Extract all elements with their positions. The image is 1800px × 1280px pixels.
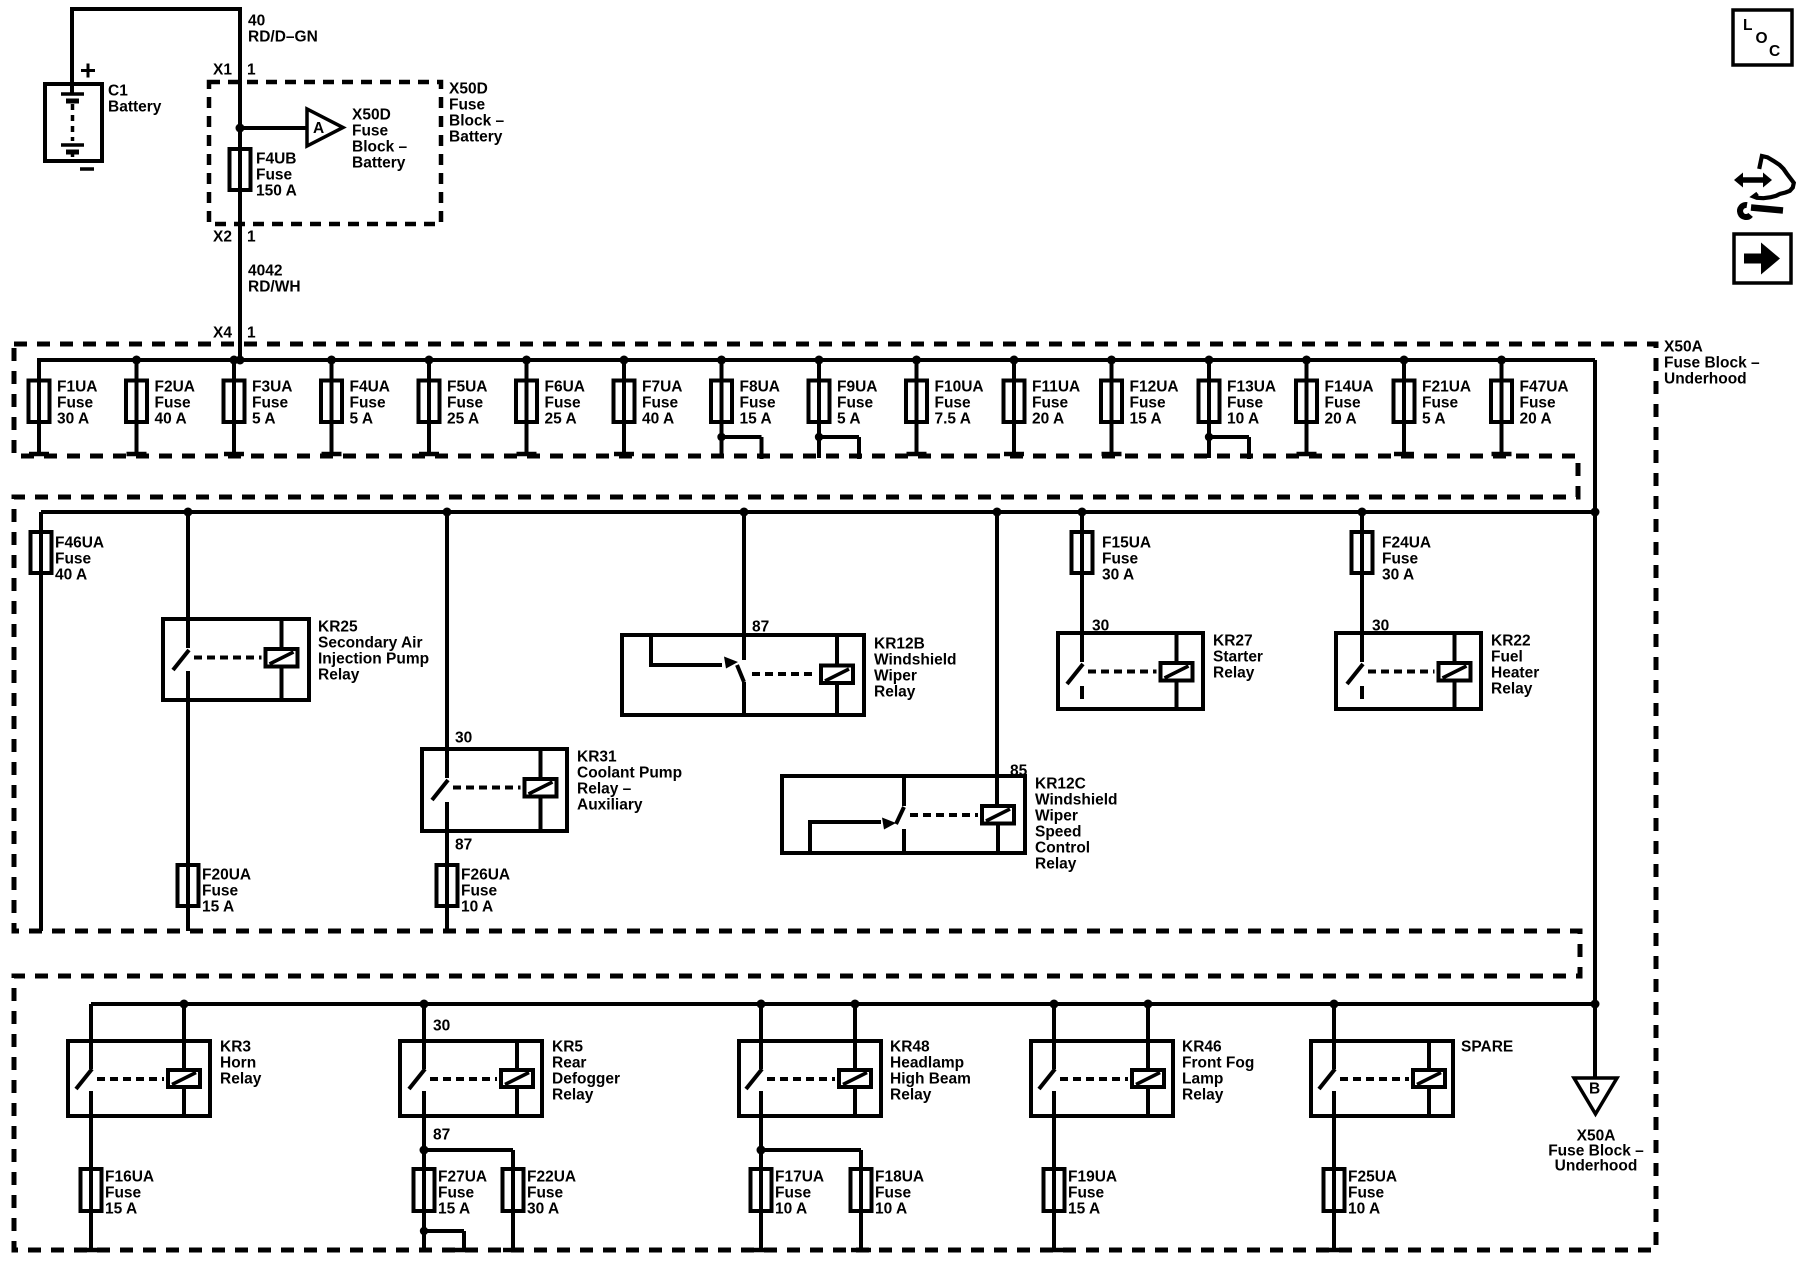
svg-text:Fuse: Fuse xyxy=(1520,395,1557,412)
svg-text:Relay: Relay xyxy=(220,1071,262,1088)
fuse F22UA 30 A xyxy=(503,1169,577,1218)
svg-text:KR5: KR5 xyxy=(552,1039,583,1056)
svg-text:F7UA: F7UA xyxy=(642,379,682,396)
svg-text:Fuse: Fuse xyxy=(447,395,484,412)
svg-text:F8UA: F8UA xyxy=(740,379,780,396)
svg-text:KR31: KR31 xyxy=(577,749,617,766)
svg-text:C1: C1 xyxy=(108,83,128,100)
svg-text:KR22: KR22 xyxy=(1491,633,1531,650)
relay KR46 Front Fog Lamp Relay xyxy=(1031,1000,1254,1117)
svg-text:KR46: KR46 xyxy=(1182,1039,1222,1056)
svg-text:Control: Control xyxy=(1035,840,1090,857)
fuse F7UA 40 A xyxy=(614,356,683,457)
svg-text:Wiper: Wiper xyxy=(1035,808,1078,825)
svg-text:10 A: 10 A xyxy=(1227,411,1259,428)
fuse F5UA 25 A xyxy=(419,356,488,457)
svg-text:Coolant Pump: Coolant Pump xyxy=(577,765,682,782)
svg-text:KR12B: KR12B xyxy=(874,636,925,653)
fuse F6UA 25 A xyxy=(516,356,585,457)
svg-text:Underhood: Underhood xyxy=(1555,1158,1638,1175)
svg-text:15 A: 15 A xyxy=(1068,1201,1100,1218)
svg-text:Fuse: Fuse xyxy=(202,883,239,900)
relay KR31 Coolant Pump Relay - Auxiliary xyxy=(422,508,682,832)
wire KR3 output to F16UA xyxy=(81,1091,101,1250)
wire label 4042 RD/WH xyxy=(248,263,301,296)
label X50D Fuse Block - Battery (box) xyxy=(449,81,505,146)
svg-text:Secondary Air: Secondary Air xyxy=(318,635,423,652)
svg-text:Fuse: Fuse xyxy=(155,395,192,412)
svg-text:Fuse: Fuse xyxy=(935,395,972,412)
fuse F16UA 15 A xyxy=(81,1169,155,1218)
svg-text:Lamp: Lamp xyxy=(1182,1071,1223,1088)
svg-text:40: 40 xyxy=(248,13,265,30)
wire label 40 RD/D-GN xyxy=(248,13,318,46)
fuse F19UA 15 A xyxy=(1044,1169,1118,1218)
svg-text:F21UA: F21UA xyxy=(1422,379,1471,396)
svg-text:Fuse: Fuse xyxy=(1032,395,1069,412)
svg-text:F13UA: F13UA xyxy=(1227,379,1276,396)
svg-text:15 A: 15 A xyxy=(438,1201,470,1218)
svg-text:Fuse: Fuse xyxy=(350,395,387,412)
fuse F9UA 5 A xyxy=(809,356,878,460)
wire battery positive to X1 node xyxy=(72,9,240,360)
svg-text:Fuse: Fuse xyxy=(352,123,389,140)
svg-text:Fuse: Fuse xyxy=(1382,551,1419,568)
svg-text:Relay: Relay xyxy=(1182,1087,1224,1104)
svg-text:15 A: 15 A xyxy=(740,411,772,428)
svg-text:KR25: KR25 xyxy=(318,619,358,636)
svg-text:X4: X4 xyxy=(213,325,232,342)
connector label X1 pin 1 xyxy=(213,62,256,79)
svg-text:15 A: 15 A xyxy=(202,899,234,916)
svg-text:Relay: Relay xyxy=(552,1087,594,1104)
svg-text:5 A: 5 A xyxy=(1422,411,1446,428)
fuse block X50A dashed outline xyxy=(14,344,1656,1250)
svg-text:87: 87 xyxy=(752,619,769,636)
connector label X4 pin 1 xyxy=(213,325,256,342)
svg-text:10 A: 10 A xyxy=(461,899,493,916)
fuse F13UA 10 A xyxy=(1199,356,1277,460)
svg-text:KR48: KR48 xyxy=(890,1039,930,1056)
relay KR27 Starter Relay xyxy=(1058,618,1263,710)
svg-text:F25UA: F25UA xyxy=(1348,1169,1397,1186)
svg-text:X50A: X50A xyxy=(1664,339,1703,356)
svg-text:Fuse: Fuse xyxy=(1068,1185,1105,1202)
svg-text:Relay: Relay xyxy=(890,1087,932,1104)
svg-text:Block –: Block – xyxy=(352,139,408,156)
svg-text:Wiper: Wiper xyxy=(874,668,917,685)
svg-text:40 A: 40 A xyxy=(642,411,674,428)
svg-text:10 A: 10 A xyxy=(1348,1201,1380,1218)
svg-text:30: 30 xyxy=(455,730,472,747)
svg-text:F17UA: F17UA xyxy=(775,1169,824,1186)
svg-text:KR3: KR3 xyxy=(220,1039,251,1056)
svg-text:10 A: 10 A xyxy=(775,1201,807,1218)
svg-text:Battery: Battery xyxy=(449,129,503,146)
fuse F4UA 5 A xyxy=(321,356,390,457)
svg-text:Fuse: Fuse xyxy=(1422,395,1459,412)
svg-text:Relay: Relay xyxy=(874,684,916,701)
svg-text:Fuse: Fuse xyxy=(1348,1185,1385,1202)
fuse F2UA 40 A xyxy=(126,356,195,457)
relay KR25 Secondary Air Injection Pump Relay xyxy=(163,508,429,701)
svg-text:Headlamp: Headlamp xyxy=(890,1055,964,1072)
svg-text:F5UA: F5UA xyxy=(447,379,487,396)
svg-text:30 A: 30 A xyxy=(1382,567,1414,584)
fuse F1UA 30 A xyxy=(29,360,98,456)
wire bus row 1 xyxy=(39,360,1595,456)
svg-text:Fuse: Fuse xyxy=(775,1185,812,1202)
svg-text:High Beam: High Beam xyxy=(890,1071,971,1088)
svg-text:X50D: X50D xyxy=(352,107,391,124)
svg-text:Fuse: Fuse xyxy=(1102,551,1139,568)
svg-text:F22UA: F22UA xyxy=(527,1169,576,1186)
svg-text:Fuse: Fuse xyxy=(1227,395,1264,412)
fuse F14UA 20 A xyxy=(1296,356,1374,457)
svg-text:Battery: Battery xyxy=(352,155,406,172)
fuse F46UA 40 A xyxy=(31,512,105,931)
svg-text:40 A: 40 A xyxy=(155,411,187,428)
connector label X2 pin 1 xyxy=(213,229,256,246)
fuse F25UA 10 A xyxy=(1324,1169,1398,1218)
svg-text:Underhood: Underhood xyxy=(1664,371,1747,388)
fuse F21UA 5 A xyxy=(1394,356,1472,457)
relay KR5 Rear Defogger Relay xyxy=(400,1000,620,1117)
svg-text:Front Fog: Front Fog xyxy=(1182,1055,1254,1072)
svg-text:30 A: 30 A xyxy=(527,1201,559,1218)
svg-text:Battery: Battery xyxy=(108,99,162,116)
svg-text:F18UA: F18UA xyxy=(875,1169,924,1186)
svg-text:7.5 A: 7.5 A xyxy=(935,411,971,428)
svg-text:Fuse: Fuse xyxy=(545,395,582,412)
relay KR22 Fuel Heater Relay xyxy=(1336,618,1539,710)
svg-text:F20UA: F20UA xyxy=(202,867,251,884)
svg-text:1: 1 xyxy=(247,62,256,79)
wire SPARE output to F25UA xyxy=(1324,1091,1344,1250)
svg-text:87: 87 xyxy=(433,1127,450,1144)
svg-text:Fuse: Fuse xyxy=(740,395,777,412)
svg-text:F1UA: F1UA xyxy=(57,379,97,396)
label X50A Fuse Block - Underhood (top right) xyxy=(1664,339,1760,388)
node A tap junction xyxy=(236,124,308,133)
svg-text:A: A xyxy=(313,120,324,137)
svg-text:B: B xyxy=(1589,1081,1600,1098)
svg-text:X50D: X50D xyxy=(449,81,488,98)
svg-text:Auxiliary: Auxiliary xyxy=(577,797,643,814)
icon adjust hand with wrench xyxy=(1734,156,1794,217)
label X50D Fuse Block - Battery (triangle A) xyxy=(352,107,408,172)
relay KR48 Headlamp High Beam Relay xyxy=(739,1000,971,1117)
svg-text:Fuse: Fuse xyxy=(55,551,92,568)
svg-text:F16UA: F16UA xyxy=(105,1169,154,1186)
wire bus row 2 xyxy=(41,508,1600,517)
relay KR12B Windshield Wiper Relay xyxy=(622,508,957,716)
svg-text:20 A: 20 A xyxy=(1325,411,1357,428)
svg-text:Fuse: Fuse xyxy=(461,883,498,900)
svg-text:F9UA: F9UA xyxy=(837,379,877,396)
fuse block X50D dashed box xyxy=(209,82,441,224)
svg-text:Fuse: Fuse xyxy=(105,1185,142,1202)
svg-text:Relay –: Relay – xyxy=(577,781,632,798)
relay KR12C Windshield Wiper Speed Control Relay xyxy=(782,508,1118,873)
svg-text:30 A: 30 A xyxy=(1102,567,1134,584)
fuse F27UA 15 A xyxy=(414,1169,488,1253)
wire KR5 pin 87 split to F27UA and F22UA xyxy=(420,1091,524,1250)
svg-text:5 A: 5 A xyxy=(350,411,374,428)
relay SPARE xyxy=(1311,1000,1513,1117)
fuse F24UA 30 A xyxy=(1352,508,1432,663)
svg-text:Fuse: Fuse xyxy=(1130,395,1167,412)
svg-text:F47UA: F47UA xyxy=(1520,379,1569,396)
connector triangle B X50A Fuse Block - Underhood xyxy=(1548,1078,1644,1175)
svg-text:F11UA: F11UA xyxy=(1032,379,1080,396)
svg-text:Fuse Block –: Fuse Block – xyxy=(1664,355,1760,372)
svg-text:5 A: 5 A xyxy=(837,411,861,428)
svg-text:Fuse: Fuse xyxy=(449,97,486,114)
wire KR48 output split to F17UA and F18UA xyxy=(751,1091,871,1250)
fuse F10UA 7.5 A xyxy=(906,356,984,457)
svg-text:F19UA: F19UA xyxy=(1068,1169,1117,1186)
svg-text:F27UA: F27UA xyxy=(438,1169,487,1186)
svg-text:F46UA: F46UA xyxy=(55,535,104,552)
wire KR46 output to F19UA xyxy=(1044,1091,1064,1250)
svg-text:20 A: 20 A xyxy=(1032,411,1064,428)
svg-text:Fuse: Fuse xyxy=(527,1185,564,1202)
fuse F4UB 150 A xyxy=(230,149,297,200)
svg-text:SPARE: SPARE xyxy=(1461,1039,1513,1056)
svg-text:4042: 4042 xyxy=(248,263,282,280)
fuse F12UA 15 A xyxy=(1101,356,1179,457)
svg-text:Relay: Relay xyxy=(1491,681,1533,698)
svg-text:O: O xyxy=(1756,30,1768,47)
svg-text:F6UA: F6UA xyxy=(545,379,585,396)
svg-text:KR12C: KR12C xyxy=(1035,776,1086,793)
svg-text:Fuse: Fuse xyxy=(1325,395,1362,412)
svg-text:Heater: Heater xyxy=(1491,665,1539,682)
svg-text:1: 1 xyxy=(247,325,256,342)
svg-text:Relay: Relay xyxy=(1213,665,1255,682)
svg-text:87: 87 xyxy=(455,837,472,854)
svg-text:Fuse: Fuse xyxy=(875,1185,912,1202)
fuse F17UA 10 A xyxy=(751,1169,825,1218)
fuse F47UA 20 A xyxy=(1491,356,1569,457)
svg-text:Fuse: Fuse xyxy=(837,395,874,412)
svg-text:15 A: 15 A xyxy=(1130,411,1162,428)
fuse F18UA 10 A xyxy=(851,1169,925,1218)
fuse F11UA 20 A xyxy=(1004,356,1081,457)
svg-text:RD/D–GN: RD/D–GN xyxy=(248,29,318,46)
svg-text:1: 1 xyxy=(247,229,256,246)
svg-text:F24UA: F24UA xyxy=(1382,535,1431,552)
wire KR25 output to F20UA xyxy=(186,671,190,931)
svg-text:Starter: Starter xyxy=(1213,649,1263,666)
svg-text:RD/WH: RD/WH xyxy=(248,279,301,296)
svg-text:F3UA: F3UA xyxy=(252,379,292,396)
svg-text:Relay: Relay xyxy=(318,667,360,684)
svg-text:Fuse: Fuse xyxy=(642,395,679,412)
svg-text:C: C xyxy=(1769,43,1780,60)
svg-text:F12UA: F12UA xyxy=(1130,379,1179,396)
fuse F3UA 5 A xyxy=(224,356,293,457)
svg-text:F15UA: F15UA xyxy=(1102,535,1151,552)
svg-text:10 A: 10 A xyxy=(875,1201,907,1218)
svg-text:F2UA: F2UA xyxy=(155,379,195,396)
svg-text:Fuse: Fuse xyxy=(256,167,293,184)
svg-text:Relay: Relay xyxy=(1035,856,1077,873)
svg-text:25 A: 25 A xyxy=(447,411,479,428)
svg-text:30 A: 30 A xyxy=(57,411,89,428)
svg-text:KR27: KR27 xyxy=(1213,633,1253,650)
svg-text:25 A: 25 A xyxy=(545,411,577,428)
fuse F8UA 15 A xyxy=(711,356,780,460)
fuse F15UA 30 A xyxy=(1072,508,1152,663)
svg-text:F26UA: F26UA xyxy=(461,867,510,884)
svg-text:5 A: 5 A xyxy=(252,411,276,428)
svg-text:Fuse: Fuse xyxy=(438,1185,475,1202)
svg-text:Defogger: Defogger xyxy=(552,1071,620,1088)
svg-text:Horn: Horn xyxy=(220,1055,256,1072)
svg-text:30: 30 xyxy=(433,1018,450,1035)
svg-text:Speed: Speed xyxy=(1035,824,1082,841)
svg-text:Fuse: Fuse xyxy=(252,395,289,412)
svg-text:F4UA: F4UA xyxy=(350,379,390,396)
battery C1 xyxy=(45,64,162,170)
relay KR3 Horn Relay xyxy=(68,1000,262,1117)
svg-text:Injection Pump: Injection Pump xyxy=(318,651,429,668)
icon LOC box xyxy=(1733,10,1792,65)
wire KR31 pin 87 output to F26UA xyxy=(447,802,472,931)
svg-text:F10UA: F10UA xyxy=(935,379,984,396)
svg-text:40 A: 40 A xyxy=(55,567,87,584)
svg-text:15 A: 15 A xyxy=(105,1201,137,1218)
svg-text:Block –: Block – xyxy=(449,113,505,130)
connector triangle A xyxy=(307,109,343,146)
svg-text:Windshield: Windshield xyxy=(1035,792,1118,809)
svg-text:X2: X2 xyxy=(213,229,232,246)
fuse F26UA 10 A xyxy=(437,865,511,916)
fuse F20UA 15 A xyxy=(178,865,252,916)
svg-text:Fuse: Fuse xyxy=(57,395,94,412)
svg-text:20 A: 20 A xyxy=(1520,411,1552,428)
icon arrow box xyxy=(1734,234,1791,283)
svg-text:150 A: 150 A xyxy=(256,183,297,200)
svg-text:Fuel: Fuel xyxy=(1491,649,1523,666)
svg-text:Rear: Rear xyxy=(552,1055,586,1072)
svg-text:L: L xyxy=(1743,17,1752,34)
svg-text:F14UA: F14UA xyxy=(1325,379,1374,396)
svg-text:F4UB: F4UB xyxy=(256,151,296,168)
wire right bus down to B xyxy=(1593,360,1597,1078)
junction feed X4 on bus 1 xyxy=(236,356,245,365)
svg-text:X1: X1 xyxy=(213,62,232,79)
svg-text:Windshield: Windshield xyxy=(874,652,957,669)
wire bus row 3 xyxy=(91,1000,1600,1009)
